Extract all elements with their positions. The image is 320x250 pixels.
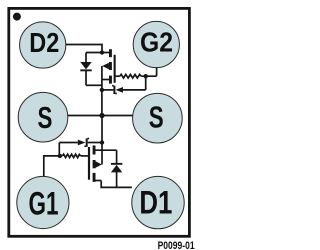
diode cathode bar Q2 — [80, 69, 91, 71]
zener Z1 wire left — [59, 142, 78, 144]
pad circles — [17, 21, 184, 228]
pad S right — [133, 93, 183, 143]
package outline frame — [9, 8, 190, 236]
pad G1 — [17, 176, 69, 228]
body diode loop of Q2 — [85, 53, 87, 63]
resistor R2 zigzag — [120, 74, 141, 78]
wire G1 lead — [44, 156, 63, 177]
diode triangle of Q2 body diode — [80, 62, 91, 69]
resistor R1 zigzag — [62, 154, 80, 157]
pad S left — [18, 92, 68, 142]
svg-text:G2: G2 — [140, 26, 173, 57]
zener cathode bar Q1 — [86, 138, 88, 146]
zener triangle Q2 — [116, 87, 124, 93]
wire S-S rail — [68, 115, 133, 117]
junction dot zener-source Q1 — [100, 140, 104, 144]
svg-text:S: S — [37, 101, 52, 135]
body diode loop of Q1 — [116, 150, 118, 163]
wire D1 to drain — [101, 181, 132, 188]
diode cathode bar Q1 body diode — [111, 163, 122, 165]
svg-text:D1: D1 — [139, 184, 172, 221]
svg-text:D2: D2 — [29, 27, 59, 58]
pad G2 — [133, 21, 179, 67]
zener Z2 wire right — [123, 89, 146, 91]
svg-text:P0099-01: P0099-01 — [158, 240, 195, 250]
wire gate lead Q1 — [81, 155, 89, 157]
wire source line Q1 — [94, 149, 117, 151]
svg-text:G1: G1 — [29, 184, 59, 221]
wire G2 drop — [156, 68, 158, 77]
zener cathode bar Q2 — [113, 86, 115, 94]
wire drain stub Q1 — [93, 180, 101, 182]
body arrow Q1 (points right) — [96, 161, 102, 167]
channel segments Q2 — [109, 49, 112, 57]
wire gate lead — [115, 75, 120, 77]
wire source stub — [102, 79, 110, 81]
wire drain line — [86, 52, 110, 54]
wire source rail — [101, 66, 103, 116]
wire source rail Q1 — [101, 116, 103, 165]
gate bar Q2 — [114, 55, 116, 83]
wire D2 to drain — [66, 45, 102, 53]
wire arrow stub Q1 — [93, 164, 97, 166]
channel segments Q1 — [93, 146, 96, 155]
junction dot gate node G1 — [58, 154, 62, 158]
junction dot gate node G2 — [144, 74, 148, 78]
wire zener riser Q1 — [58, 143, 60, 156]
wire resistor to G2 — [141, 75, 156, 77]
wire arrow stub — [104, 65, 110, 67]
wire zener riser — [145, 76, 147, 90]
junction dot D2 drain — [100, 50, 104, 54]
pad D2 — [20, 22, 66, 68]
zener Z2 wire left — [102, 89, 114, 91]
junction dot S rail — [99, 113, 104, 118]
svg-text:S: S — [149, 100, 164, 134]
pad D1 — [132, 176, 184, 228]
body arrow Q2 — [102, 63, 109, 70]
zener Z1 wire right — [88, 142, 102, 144]
gate bar Q1 — [88, 147, 90, 180]
diode triangle of Q1 body diode (points up) — [111, 165, 122, 173]
junction dot zener-source — [100, 88, 104, 92]
pin 1 index dot — [13, 13, 21, 21]
zener triangle Q1 (points right) — [78, 140, 86, 146]
